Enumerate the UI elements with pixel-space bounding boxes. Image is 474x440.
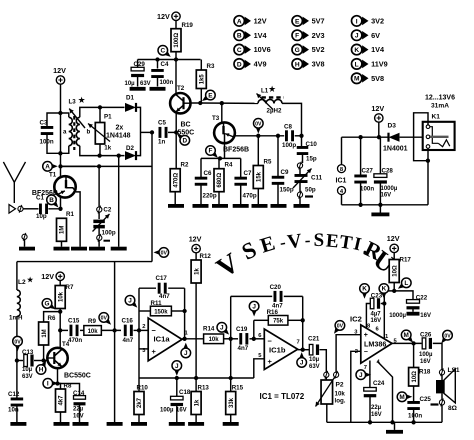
svg-text:470Ω: 470Ω <box>173 173 179 188</box>
junction tank down <box>117 153 121 157</box>
svg-text:a: a <box>63 129 67 136</box>
svg-text:J: J <box>355 33 359 40</box>
wire T4 emitter to R8 <box>58 384 61 390</box>
label IC1 = TL072 <box>260 392 305 401</box>
ground R8 <box>54 422 70 426</box>
legend C 10V6 <box>234 44 271 54</box>
resistor R4 <box>214 162 233 192</box>
svg-text:1k: 1k <box>194 268 200 275</box>
ground C4 <box>150 87 166 91</box>
wire R19 to rail <box>175 52 177 60</box>
pin 2 label <box>142 324 145 330</box>
resistor R12 <box>191 253 211 283</box>
junction C23 right <box>382 301 386 305</box>
svg-text:C24: C24 <box>373 380 385 387</box>
svg-text:4n7: 4n7 <box>123 337 134 344</box>
svg-text:J: J <box>220 325 224 332</box>
svg-text:L2: L2 <box>18 279 26 286</box>
svg-text:12V: 12V <box>157 12 170 21</box>
node 0V preamp <box>99 313 111 325</box>
capacitor C19 <box>236 326 249 352</box>
svg-text:C17: C17 <box>156 275 168 282</box>
svg-text:C11: C11 <box>311 175 323 182</box>
trimmer pin bottom C11 <box>297 191 313 199</box>
resistor R15 <box>226 384 244 414</box>
capacitor C27 <box>354 168 374 193</box>
svg-text:100p: 100p <box>102 229 116 236</box>
wire C21 to P2 <box>320 350 327 373</box>
node J out1 <box>181 343 191 358</box>
wire emitter to C14 <box>58 384 80 397</box>
wire C7 stub <box>240 158 242 177</box>
wire R1 to ground <box>61 241 63 246</box>
capacitor C13 <box>17 349 34 380</box>
svg-text:C29: C29 <box>134 61 146 68</box>
svg-text:B: B <box>237 33 242 40</box>
wire T2 collector <box>175 60 177 95</box>
wire pin4 down <box>378 362 393 423</box>
svg-text:1N4148: 1N4148 <box>106 133 131 140</box>
svg-text:LM386: LM386 <box>364 339 386 348</box>
svg-text:C: C <box>160 48 165 55</box>
junction out <box>411 341 415 345</box>
node 0V mid <box>253 119 263 134</box>
svg-text:J: J <box>359 372 363 379</box>
potentiometer P1 <box>88 113 112 151</box>
junction L node <box>392 289 396 293</box>
junction T3 source <box>218 156 222 160</box>
svg-text:75k: 75k <box>273 319 284 325</box>
svg-text:11V9: 11V9 <box>371 60 388 69</box>
svg-text:63V: 63V <box>140 81 151 87</box>
ground C11 <box>294 204 310 208</box>
svg-text:0V: 0V <box>255 122 262 128</box>
wire plug to P2 <box>325 377 327 380</box>
wire source row <box>201 157 241 159</box>
feedback left vertical <box>138 288 140 330</box>
resistor R16 <box>254 309 303 325</box>
svg-text:4k7: 4k7 <box>59 395 65 406</box>
svg-text:★: ★ <box>27 276 34 284</box>
svg-text:A: A <box>45 164 50 171</box>
svg-text:12V: 12V <box>254 17 267 26</box>
wire to C22 <box>394 291 413 300</box>
svg-text:C26: C26 <box>420 332 432 339</box>
wire C3 top rail <box>47 113 69 127</box>
junction R15 bias <box>229 376 233 380</box>
svg-text:E: E <box>295 18 300 25</box>
ground R10 <box>131 422 147 426</box>
wire R6 bottom <box>43 345 45 361</box>
junction P1 bottom <box>97 153 101 157</box>
capacitor C21 <box>308 336 320 371</box>
resistor R2 <box>170 162 189 192</box>
transformer L3 winding b <box>76 107 100 155</box>
svg-text:10k: 10k <box>335 391 346 398</box>
antenna <box>3 162 25 203</box>
junction P1 top <box>98 105 102 155</box>
wire R2 ground <box>174 192 176 204</box>
ground C18 <box>169 422 185 426</box>
wire C27 bottom stub <box>360 183 362 205</box>
ground plug <box>22 233 27 247</box>
ground supply <box>371 205 389 217</box>
wire pin7 out <box>298 349 310 351</box>
wire C10 stub <box>301 136 303 147</box>
wire pin8 up <box>341 137 343 164</box>
svg-text:C12: C12 <box>8 391 20 398</box>
label IC2 <box>350 315 362 324</box>
wire wiper to LM386 pin3 <box>336 335 361 373</box>
svg-text:100n: 100n <box>360 186 374 193</box>
svg-text:1V4: 1V4 <box>371 45 385 54</box>
svg-text:C: C <box>237 47 242 54</box>
svg-text:F: F <box>295 33 299 40</box>
wire C18 gnd <box>176 405 178 422</box>
wire top rail to D1 <box>100 106 125 108</box>
svg-text:12...13V6: 12...13V6 <box>425 95 455 102</box>
svg-text:R4: R4 <box>225 162 233 169</box>
legend D 4V9 <box>234 59 267 69</box>
svg-text:−: − <box>364 349 368 356</box>
wire pin4 down <box>341 195 343 205</box>
IC1 supply pin 4 <box>338 187 346 196</box>
ground R13 <box>188 422 204 426</box>
wire C10 to C11 <box>302 154 304 163</box>
wire C26 to LS1 <box>433 343 442 369</box>
svg-text:100µ: 100µ <box>160 408 174 414</box>
svg-text:12V: 12V <box>41 272 54 281</box>
svg-text:M: M <box>354 76 360 83</box>
svg-text:BC: BC <box>181 122 191 129</box>
trimmer pin top C11 <box>297 162 302 170</box>
wire C11 down <box>299 182 301 192</box>
speaker LS1 <box>436 367 460 412</box>
wire 12V to R17 <box>393 253 395 260</box>
junction 12V tank top <box>58 111 62 115</box>
svg-text:C23: C23 <box>371 292 383 299</box>
svg-text:63V: 63V <box>309 364 320 370</box>
svg-text:H: H <box>39 367 44 374</box>
amp LM386 <box>361 325 392 363</box>
wire R8 gnd <box>60 412 62 422</box>
pin labels LM386 <box>354 324 397 372</box>
svg-text:680Ω: 680Ω <box>217 173 223 188</box>
svg-text:J: J <box>300 360 304 367</box>
ground R2 <box>168 204 184 208</box>
svg-text:L3: L3 <box>69 98 77 105</box>
label a b <box>63 129 91 136</box>
svg-text:J: J <box>252 303 256 310</box>
svg-text:31mA: 31mA <box>431 103 449 110</box>
svg-text:R10: R10 <box>137 384 149 391</box>
capacitor C18 <box>160 389 191 414</box>
R16 left vertical <box>253 320 255 339</box>
supply 12V R19 <box>157 12 180 21</box>
ground 0V line <box>107 422 123 426</box>
svg-text:10µ: 10µ <box>22 367 33 373</box>
svg-text:16V: 16V <box>73 414 84 420</box>
transistor T3 BF256B <box>214 122 249 153</box>
svg-text:4n7: 4n7 <box>159 293 170 300</box>
label IC1 supply <box>336 178 347 185</box>
svg-text:C18: C18 <box>179 389 191 396</box>
svg-text:LS1: LS1 <box>448 367 460 374</box>
input plug <box>9 205 23 214</box>
wire R18 to C25 <box>413 386 415 401</box>
svg-text:16V: 16V <box>420 359 431 365</box>
legend E 5V7 <box>292 16 325 26</box>
resistor R14 <box>203 326 224 344</box>
svg-text:22µ: 22µ <box>371 405 382 411</box>
wire R5 stub <box>257 136 259 166</box>
node M out <box>401 330 413 343</box>
wire node A rail to right <box>61 165 96 167</box>
svg-text:R11: R11 <box>151 300 163 307</box>
svg-text:10µ: 10µ <box>309 357 320 363</box>
resistor R19 <box>171 22 193 52</box>
junction C25 rail <box>411 420 415 424</box>
wire pin3 <box>139 348 148 350</box>
svg-text:D1: D1 <box>126 95 134 102</box>
capacitor C25 <box>407 396 431 420</box>
svg-text:I: I <box>47 381 49 388</box>
label L2 <box>18 276 34 286</box>
svg-text:L: L <box>355 61 359 68</box>
variable capacitor C2 <box>93 166 116 246</box>
ground R15 <box>223 422 239 426</box>
svg-text:R7: R7 <box>66 284 74 291</box>
svg-text:12V: 12V <box>371 104 384 113</box>
legend H 3V8 <box>292 59 325 69</box>
svg-text:8Ω: 8Ω <box>448 405 458 412</box>
wire pin5 <box>254 359 264 378</box>
svg-text:K1: K1 <box>432 114 441 121</box>
junction R5 top <box>256 134 260 138</box>
node B <box>47 195 59 208</box>
junction R13 top <box>194 376 198 380</box>
wire R14 to C19 <box>224 338 238 340</box>
svg-text:C15: C15 <box>68 318 80 325</box>
inductor L1 <box>258 97 284 103</box>
capacitor C8 <box>282 124 296 150</box>
ground C12 <box>10 422 26 426</box>
junction R15 col <box>229 337 233 341</box>
wire pin7 C24 <box>369 361 371 388</box>
resistor R6 <box>39 315 56 345</box>
svg-text:C1: C1 <box>36 195 44 202</box>
wire C4 gnd <box>157 77 159 87</box>
junction C27 bottom <box>358 203 362 207</box>
wire C27 top stub <box>360 137 362 175</box>
svg-text:2x: 2x <box>116 125 124 132</box>
ground tank <box>111 247 127 251</box>
svg-text:C4: C4 <box>161 61 169 68</box>
wire plug to C1 <box>23 208 38 210</box>
label 2uH2 <box>267 108 282 115</box>
wire T3 drain up <box>221 103 223 122</box>
wire P1 bottom to D2 <box>100 155 125 157</box>
junction R16 col <box>252 337 256 341</box>
feedback2 right vertical <box>302 296 304 349</box>
svg-text:R1: R1 <box>66 211 74 218</box>
capacitor C1 <box>36 195 48 221</box>
svg-text:R6: R6 <box>48 315 56 322</box>
pin 6 label <box>258 333 262 339</box>
svg-text:4V9: 4V9 <box>254 60 267 69</box>
wire C7 gnd <box>240 185 242 205</box>
svg-text:100p: 100p <box>282 142 296 149</box>
svg-text:3V2: 3V2 <box>371 17 384 26</box>
junction C18 top <box>175 376 179 380</box>
svg-text:5V7: 5V7 <box>312 17 325 26</box>
svg-text:C9: C9 <box>281 169 289 176</box>
capacitor C22 <box>389 295 431 320</box>
svg-text:D3: D3 <box>388 123 397 130</box>
legend A 12V <box>234 16 267 26</box>
capacitor C23 <box>370 292 382 324</box>
svg-text:F: F <box>209 148 213 155</box>
svg-text:L: L <box>404 280 408 287</box>
diode D1 <box>125 95 136 112</box>
wire R3 top <box>200 60 202 71</box>
supply ground rail <box>342 204 429 206</box>
node M low <box>397 392 412 402</box>
junction pin4 rail <box>390 420 394 424</box>
feedback right vertical <box>184 288 186 339</box>
svg-text:7: 7 <box>364 365 367 371</box>
legend G 5V2 <box>292 44 325 54</box>
capacitor C4 <box>151 61 173 86</box>
svg-text:10V6: 10V6 <box>254 45 271 54</box>
node E <box>202 90 215 101</box>
svg-text:1n: 1n <box>158 139 165 146</box>
pin 5 label <box>258 353 262 359</box>
svg-text:12V: 12V <box>387 234 400 243</box>
wire L2 to C12 <box>16 361 18 399</box>
svg-text:1N4001: 1N4001 <box>383 146 408 153</box>
node K 2 <box>379 284 389 299</box>
junction 12V rail <box>377 135 381 139</box>
junction T2 base <box>198 101 202 105</box>
label L1 <box>261 85 277 95</box>
svg-text:2V3: 2V3 <box>312 31 325 40</box>
svg-text:M: M <box>399 394 404 401</box>
wire L to pin6 column <box>384 291 394 338</box>
wire T2 emitter down to R2 <box>175 113 177 169</box>
arrow L1 <box>257 94 274 110</box>
resistor R13 <box>191 384 209 414</box>
junction R16 right <box>301 318 305 322</box>
node C <box>158 46 171 57</box>
capacitor C20 <box>231 284 303 310</box>
svg-text:150k: 150k <box>154 309 168 315</box>
svg-text:R18: R18 <box>419 369 431 376</box>
capacitor C24 <box>364 380 385 418</box>
junction pin7 <box>301 348 305 352</box>
pin plug P2 wiper <box>334 371 339 379</box>
wire 12V stub <box>378 122 380 137</box>
transformer L3 winding a <box>69 117 73 145</box>
junction C4 top <box>155 57 159 61</box>
wire R15 gnd <box>230 415 232 423</box>
svg-text:1k: 1k <box>104 144 111 151</box>
wire C19 to IC1b <box>250 338 265 340</box>
label T1 <box>49 172 57 179</box>
svg-text:100µ: 100µ <box>419 352 433 358</box>
wire T4 base <box>44 360 48 362</box>
svg-text:50p: 50p <box>305 187 316 194</box>
svg-text:5V2: 5V2 <box>312 45 325 54</box>
svg-text:+: + <box>364 332 368 339</box>
wire C22 gnd <box>412 308 414 311</box>
pin plug LS1 bottom <box>431 393 445 422</box>
wire R17 down <box>393 283 395 291</box>
svg-text:J: J <box>175 363 179 370</box>
wire C14 gnd <box>79 405 81 423</box>
svg-text:0V: 0V <box>14 339 21 345</box>
capacitor C12 <box>8 391 23 414</box>
wire C23 right <box>381 303 385 305</box>
wire C16 to IC1a <box>134 329 149 331</box>
svg-text:3V8: 3V8 <box>312 60 325 69</box>
resistor R17 <box>389 257 411 283</box>
svg-text:D: D <box>237 61 242 68</box>
node J out2 <box>297 352 307 367</box>
pin plug LS1 top <box>439 368 444 376</box>
node 0V L2 <box>13 336 23 351</box>
wire C12 gnd <box>16 406 18 423</box>
svg-text:−: − <box>268 337 273 346</box>
svg-text:C10: C10 <box>306 141 318 148</box>
svg-text:15k: 15k <box>257 171 263 182</box>
wire R6 top <box>44 312 61 322</box>
wire C8 right seg <box>295 135 302 137</box>
node J fb2 <box>249 301 259 316</box>
capacitor C16 <box>122 318 134 345</box>
node J amp <box>356 370 371 380</box>
svg-text:R5: R5 <box>264 159 272 166</box>
junction T3 drain <box>220 101 224 105</box>
op-amp IC1b <box>264 329 297 370</box>
junction T4 base <box>41 358 45 362</box>
svg-text:J: J <box>128 298 132 305</box>
svg-text:10Ω: 10Ω <box>392 265 398 277</box>
svg-text:K: K <box>382 286 387 293</box>
wire K1 return <box>414 113 430 205</box>
svg-text:1mH: 1mH <box>9 315 23 322</box>
svg-text:10k: 10k <box>88 329 99 335</box>
transistor T4 BC550C <box>47 341 91 380</box>
ground C9 <box>271 204 287 208</box>
svg-text:12V: 12V <box>189 234 202 243</box>
capacitor C28 <box>374 168 398 199</box>
junction R6 top <box>58 309 62 313</box>
svg-text:16V: 16V <box>420 313 431 319</box>
junction R11 right <box>182 309 186 313</box>
wire C28 top stub <box>379 137 381 174</box>
IF rail <box>235 135 284 137</box>
node F <box>206 146 218 158</box>
label 12...13V6 <box>425 95 455 110</box>
junction pin1 <box>182 337 186 341</box>
junction C24 rail <box>368 420 372 424</box>
wire 12V to node A column <box>60 84 62 166</box>
ground C14 <box>73 422 89 426</box>
svg-text:100n: 100n <box>408 413 422 420</box>
capacitor C9 <box>272 169 294 194</box>
ground C7 <box>233 204 249 208</box>
